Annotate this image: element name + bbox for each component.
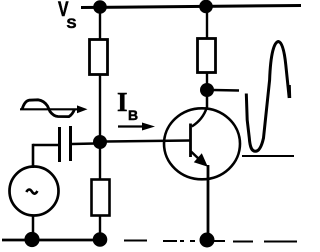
svg-text:I: I — [117, 87, 128, 117]
svg-text:S: S — [67, 15, 77, 31]
svg-text:B: B — [128, 107, 138, 123]
